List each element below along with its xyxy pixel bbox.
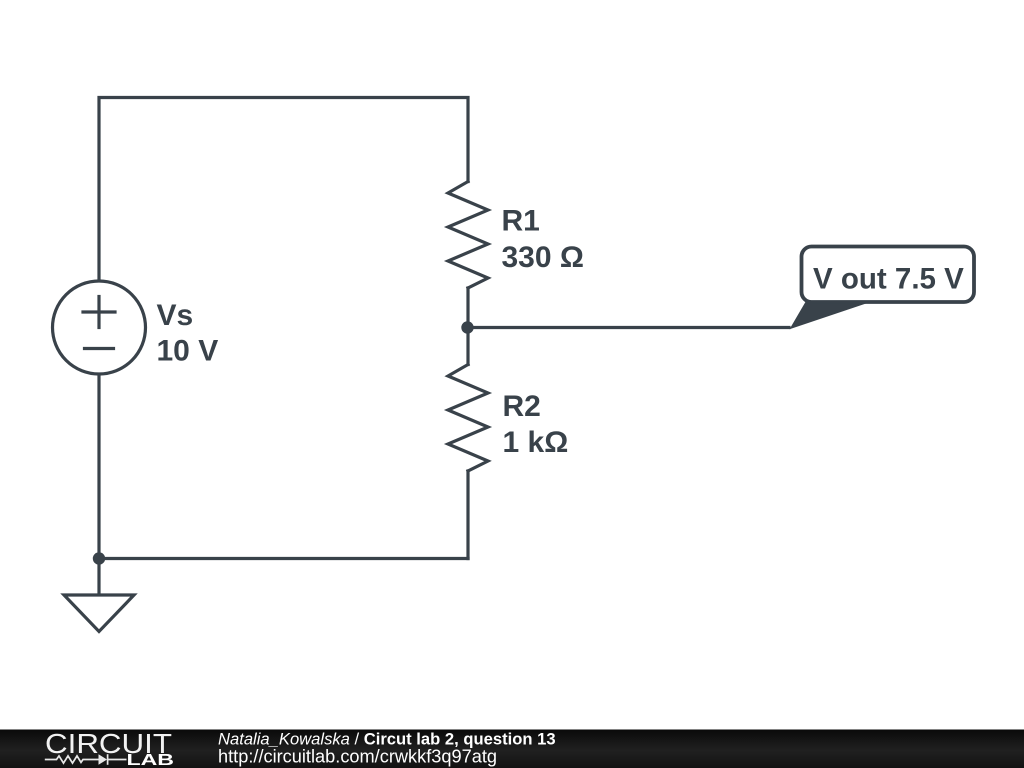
ground triangle (64, 595, 134, 632)
wire node to R2 (466, 328, 469, 365)
resistor R1 (448, 182, 488, 289)
wire bottom horizontal (99, 557, 468, 560)
svg-text:Natalia_Kowalska / Circut lab: Natalia_Kowalska / Circut lab 2, questio… (218, 729, 556, 748)
svg-text:10 V: 10 V (157, 334, 219, 367)
voltage source minus sign (85, 347, 114, 350)
node junction dot at divider output (461, 321, 473, 333)
footer bar (0, 730, 1024, 768)
wire R2 down to bottom (466, 471, 469, 559)
node junction dot at ground (93, 552, 105, 564)
ground stem (97, 559, 100, 595)
svg-text:http://circuitlab.com/crwkkf3q: http://circuitlab.com/crwkkf3q97atg (218, 747, 497, 767)
voltage source plus sign (83, 310, 115, 313)
svg-text:V out 7.5 V: V out 7.5 V (813, 263, 964, 296)
CircuitLab logo squiggle resistor-diode (45, 754, 127, 765)
svg-text:LAB: LAB (127, 752, 175, 768)
probe callout box (802, 247, 975, 303)
wire left vertical lower (97, 374, 100, 559)
resistor R2 (448, 365, 488, 472)
svg-text:330 Ω: 330 Ω (502, 241, 584, 274)
svg-text:1 kΩ: 1 kΩ (503, 426, 569, 459)
svg-text:R1: R1 (502, 205, 540, 238)
svg-text:R2: R2 (503, 390, 541, 423)
wire R1 to node (466, 288, 469, 328)
wire output node to callout (468, 326, 789, 329)
probe callout tail (790, 301, 873, 329)
svg-text:Vs: Vs (157, 299, 194, 332)
wire top horizontal (99, 98, 468, 282)
voltage source Vs circle (53, 281, 146, 374)
